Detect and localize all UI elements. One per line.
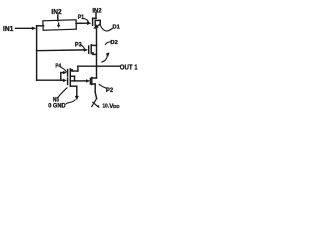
svg-text:P4: P4 xyxy=(55,64,61,70)
svg-text:0 GND: 0 GND xyxy=(48,102,66,109)
svg-text:P3: P3 xyxy=(75,42,82,49)
svg-text:D1: D1 xyxy=(113,25,121,31)
svg-text:IN2: IN2 xyxy=(51,9,61,16)
svg-text:IN1: IN1 xyxy=(3,26,13,33)
svg-text:P2: P2 xyxy=(106,87,114,94)
svg-text:IN2: IN2 xyxy=(92,8,102,15)
svg-text:D2: D2 xyxy=(110,40,117,46)
svg-text:P1: P1 xyxy=(78,14,85,21)
svg-text:DD: DD xyxy=(113,104,119,109)
svg-text:OUT 1: OUT 1 xyxy=(120,64,138,71)
